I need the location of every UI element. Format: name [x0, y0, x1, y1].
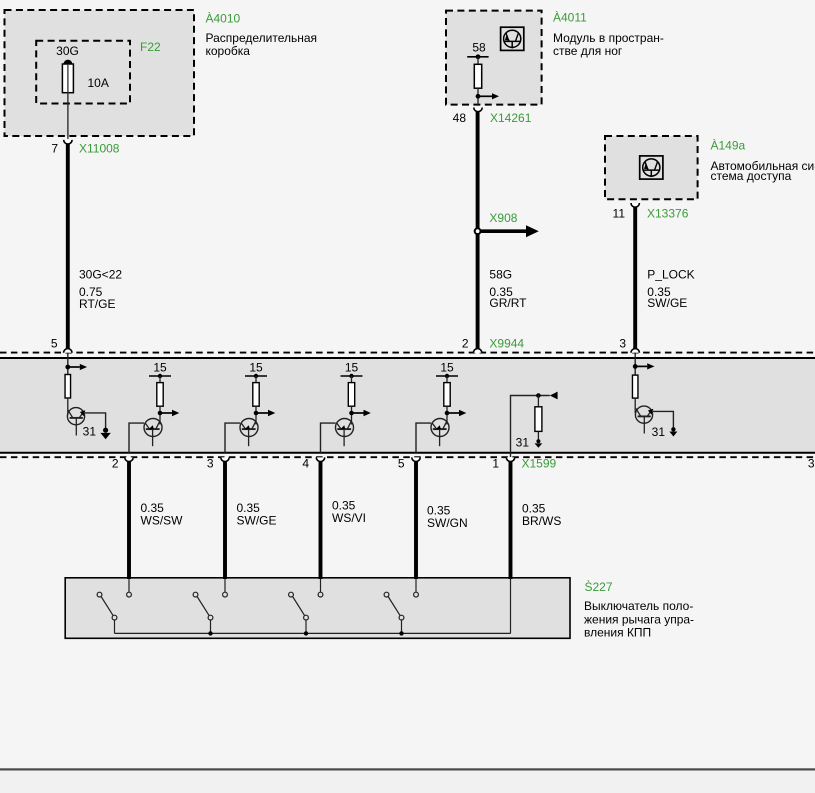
band column 1: input from pin 5	[65, 353, 87, 375]
channel pin 3 (wire SW/GE)	[193, 374, 275, 634]
svg-text:58G: 58G	[489, 268, 512, 282]
svg-text:3: 3	[619, 337, 626, 351]
svg-text:X9944: X9944	[489, 337, 524, 351]
module A4010 box	[5, 10, 195, 136]
svg-text:31: 31	[83, 425, 97, 439]
svg-text:2: 2	[112, 457, 119, 471]
resistor in A4011	[474, 57, 481, 105]
ground 31 pin1	[535, 439, 543, 448]
svg-text:X13376: X13376	[647, 207, 689, 221]
svg-text:10A: 10A	[88, 76, 109, 90]
wire A4011 to band (58G)	[476, 111, 480, 348]
svg-text:15: 15	[345, 361, 359, 375]
svg-text:31: 31	[652, 425, 666, 439]
common bus in S227	[115, 632, 511, 634]
svg-text:À149a: À149a	[711, 138, 746, 153]
module band (footwell module internals strip)	[0, 353, 815, 458]
channel pin 2 (wire WS/SW)	[97, 374, 179, 634]
connector dome at band top x=67.8	[64, 349, 72, 353]
svg-text:À4011: À4011	[553, 10, 587, 25]
svg-text:Распределительная: Распределительная	[206, 31, 318, 45]
svg-text:GR/RT: GR/RT	[489, 296, 527, 310]
svg-text:2: 2	[462, 337, 469, 351]
X1599 pin1 channel inside band	[511, 392, 558, 457]
channel pin 4 (wire WS/VI)	[289, 374, 371, 634]
module A4011 box	[446, 11, 542, 105]
resistor to ground (pin1)	[535, 396, 542, 440]
svg-text:SW/GE: SW/GE	[647, 296, 687, 310]
base lead col6 to ground	[653, 411, 674, 427]
svg-text:стве для ног: стве для ног	[553, 44, 623, 58]
bus junction dot switch 2	[208, 631, 212, 635]
svg-text:31: 31	[516, 436, 530, 450]
svg-text:X11008: X11008	[79, 142, 120, 156]
icon control unit A4011	[501, 27, 524, 50]
svg-text:P_LOCK: P_LOCK	[647, 268, 694, 282]
svg-text:коробка: коробка	[206, 44, 251, 58]
connector dome at band top x=635.2	[631, 349, 639, 353]
svg-text:Выключатель поло-: Выключатель поло-	[584, 599, 693, 613]
bus junction dot switch 4	[399, 631, 403, 635]
svg-text:15: 15	[153, 361, 167, 375]
base lead col1 to ground	[85, 413, 106, 429]
connector X11008 symbol	[64, 140, 72, 144]
icon control unit A149a	[640, 156, 663, 179]
svg-text:7: 7	[51, 142, 58, 156]
connector cup pin1 at band bottom	[506, 457, 514, 461]
svg-text:X14261: X14261	[490, 111, 532, 125]
svg-text:À4010: À4010	[206, 11, 241, 26]
svg-text:SW/GN: SW/GN	[427, 516, 468, 530]
svg-text:4: 4	[302, 457, 309, 471]
svg-text:30G<22: 30G<22	[79, 268, 122, 282]
connector X13376 symbol	[631, 203, 639, 207]
svg-text:3: 3	[808, 457, 815, 471]
band column 6: input from pin 3 (P_LOCK)	[633, 353, 655, 375]
svg-text:RT/GE: RT/GE	[79, 297, 115, 311]
svg-text:X908: X908	[489, 211, 517, 225]
svg-text:S̀227: S̀227	[585, 579, 613, 594]
svg-text:5: 5	[398, 457, 405, 471]
module A149a box	[605, 136, 698, 199]
ground 31 col1	[100, 428, 110, 440]
transistor band col6	[635, 406, 653, 433]
svg-text:5: 5	[51, 337, 58, 351]
channel pin 5 (wire SW/GN)	[384, 374, 466, 634]
svg-text:48: 48	[453, 111, 467, 125]
node bar 58	[467, 54, 488, 59]
svg-text:15: 15	[249, 361, 263, 375]
connector dome at band top x=477.6	[473, 349, 481, 353]
wire A4010 to band (30G)	[66, 144, 70, 349]
ground 31 col6	[669, 427, 677, 436]
connector X14261 symbol	[474, 108, 482, 112]
svg-text:30G: 30G	[56, 44, 79, 58]
svg-text:15: 15	[440, 361, 454, 375]
svg-text:1: 1	[492, 457, 499, 471]
svg-text:стема доступа: стема доступа	[711, 169, 792, 183]
svg-text:Модуль в простран-: Модуль в простран-	[553, 31, 664, 45]
svg-text:3: 3	[207, 457, 214, 471]
svg-text:вления КПП: вления КПП	[584, 626, 651, 640]
resistor band col1	[65, 375, 71, 415]
svg-text:F22: F22	[140, 40, 161, 54]
svg-text:58: 58	[472, 41, 486, 55]
bus junction dot switch 3	[304, 631, 308, 635]
node X908 junction + arrow	[475, 225, 539, 237]
svg-text:WS/SW: WS/SW	[141, 514, 184, 528]
svg-text:жения рычага упра-: жения рычага упра-	[584, 613, 694, 627]
svg-text:BR/WS: BR/WS	[522, 514, 561, 528]
junction + arrow in A4011	[476, 93, 499, 99]
wire fuse to box edge	[67, 93, 69, 139]
svg-text:11: 11	[613, 207, 626, 221]
wire pin1 to switch box (BR/WS)	[509, 461, 513, 579]
fuse F22	[62, 60, 73, 93]
transistor band col1	[67, 408, 85, 436]
switch box S227	[65, 578, 570, 639]
pin1 wire inside S227	[510, 579, 512, 634]
svg-text:WS/VI: WS/VI	[332, 511, 366, 525]
bottom page divider	[0, 768, 815, 770]
svg-text:X1599: X1599	[522, 457, 557, 471]
svg-text:SW/GE: SW/GE	[237, 514, 277, 528]
wire A149a to band (P_LOCK)	[633, 207, 637, 349]
resistor band col6	[632, 375, 638, 413]
fuse box F22	[36, 41, 130, 104]
